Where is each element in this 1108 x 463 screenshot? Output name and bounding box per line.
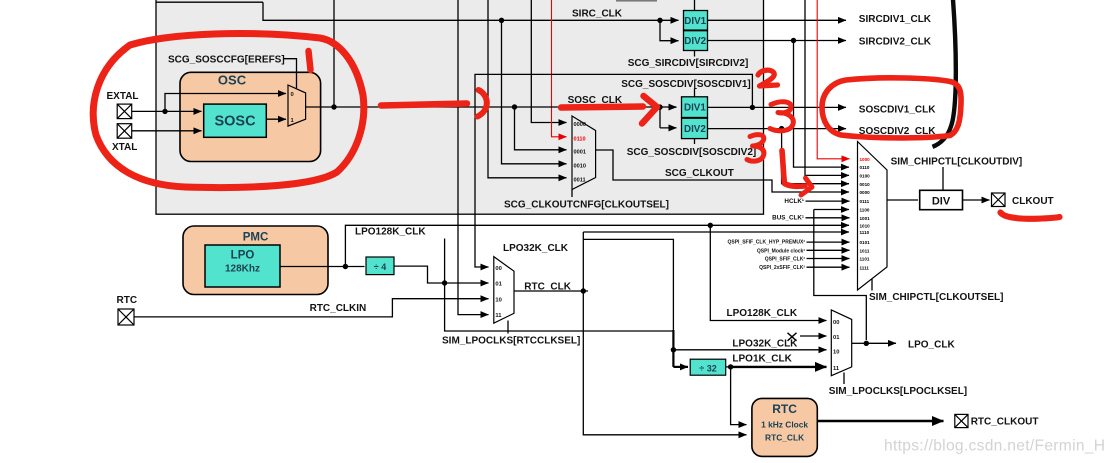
- svg-text:10: 10: [495, 297, 501, 303]
- svg-text:1011: 1011: [860, 248, 870, 253]
- svg-text:1101: 1101: [860, 257, 870, 262]
- svg-text:SCG_CLKOUTCNFG[CLKOUTSEL]: SCG_CLKOUTCNFG[CLKOUTSEL]: [504, 200, 669, 211]
- svg-text:1110: 1110: [860, 230, 870, 235]
- svg-text:SCG_CLKOUT: SCG_CLKOUT: [665, 168, 734, 179]
- svg-text:1111: 1111: [860, 265, 870, 270]
- svg-text:1 kHz Clock: 1 kHz Clock: [761, 420, 808, 430]
- svg-text:SOSCDIV1_CLK: SOSCDIV1_CLK: [859, 105, 936, 116]
- svg-text:1001: 1001: [860, 216, 871, 221]
- svg-text:SIM_CHIPCTL[CLKOUTSEL]: SIM_CHIPCTL[CLKOUTSEL]: [869, 292, 1003, 303]
- svg-text:DIV2: DIV2: [684, 124, 706, 135]
- svg-text:1000: 1000: [860, 157, 871, 162]
- svg-text:11: 11: [833, 366, 840, 372]
- svg-text:0010: 0010: [860, 182, 871, 187]
- svg-text:RTC_CLK: RTC_CLK: [524, 281, 571, 292]
- svg-text:01: 01: [833, 335, 840, 341]
- svg-text:RTC_CLKOUT: RTC_CLKOUT: [971, 417, 1039, 428]
- svg-text:128Khz: 128Khz: [225, 264, 260, 275]
- svg-text:QSPI_SFIF_CLK²: QSPI_SFIF_CLK²: [765, 257, 806, 263]
- svg-text:LPO: LPO: [231, 250, 255, 262]
- svg-text:0010: 0010: [574, 163, 586, 169]
- svg-text:10: 10: [833, 349, 839, 355]
- svg-text:RTC_CLKIN: RTC_CLKIN: [310, 303, 367, 314]
- svg-text:0011: 0011: [574, 177, 586, 183]
- svg-text:LPO1K_CLK: LPO1K_CLK: [732, 354, 792, 365]
- svg-text:00: 00: [495, 266, 501, 272]
- svg-text:LPO_CLK: LPO_CLK: [908, 340, 955, 351]
- svg-text:RTC: RTC: [117, 295, 138, 306]
- svg-text:HCLK¹: HCLK¹: [784, 198, 804, 205]
- svg-text:DIV1: DIV1: [684, 16, 706, 27]
- svg-text:1010: 1010: [860, 223, 871, 228]
- svg-text:00: 00: [833, 320, 839, 326]
- svg-text:SCG_SOSCDIV[SOSCDIV2]: SCG_SOSCDIV[SOSCDIV2]: [627, 147, 756, 158]
- svg-text:QSPI_2xSFIF_CLK²: QSPI_2xSFIF_CLK²: [759, 265, 805, 271]
- svg-text:OSC: OSC: [218, 73, 247, 88]
- svg-text:SIRC_CLK: SIRC_CLK: [572, 8, 623, 19]
- svg-text:SCG_SOSCCFG[EREFS]: SCG_SOSCCFG[EREFS]: [168, 55, 285, 66]
- svg-text:QSPI_Module clock²: QSPI_Module clock²: [757, 248, 805, 254]
- svg-text:11: 11: [495, 313, 502, 319]
- svg-text:PMC: PMC: [243, 232, 269, 244]
- svg-text:QSPI_SFIF_CLK_HYP_PREMUX²: QSPI_SFIF_CLK_HYP_PREMUX²: [727, 240, 805, 246]
- svg-text:0110: 0110: [574, 136, 586, 142]
- svg-text:0110: 0110: [860, 165, 870, 170]
- svg-text:LPO128K_CLK: LPO128K_CLK: [355, 227, 426, 238]
- svg-text:LPO32K_CLK: LPO32K_CLK: [503, 243, 569, 254]
- svg-text:SIRCDIV2_CLK: SIRCDIV2_CLK: [859, 36, 932, 47]
- svg-text:0000: 0000: [860, 190, 871, 195]
- svg-text:0100: 0100: [860, 174, 871, 179]
- svg-text:1100: 1100: [860, 208, 870, 213]
- svg-text:DIV2: DIV2: [684, 36, 706, 47]
- svg-text:LPO32K_CLK: LPO32K_CLK: [732, 339, 798, 350]
- svg-text:SIM_LPOCLKS[RTCCLKSEL]: SIM_LPOCLKS[RTCCLKSEL]: [442, 335, 580, 346]
- svg-text:SCG_SOSCDIV[SOSCDIV1]: SCG_SOSCDIV[SOSCDIV1]: [621, 79, 750, 90]
- svg-text:SIM_CHIPCTL[CLKOUTDIV]: SIM_CHIPCTL[CLKOUTDIV]: [891, 157, 1023, 168]
- svg-text:01: 01: [495, 282, 502, 288]
- svg-text:XTAL: XTAL: [112, 142, 137, 153]
- svg-text:DIV1: DIV1: [684, 103, 706, 114]
- svg-text:0: 0: [291, 92, 294, 98]
- svg-text:https://blog.csdn.net/Fermin_H: https://blog.csdn.net/Fermin_H: [884, 438, 1105, 455]
- svg-text:LPO128K_CLK: LPO128K_CLK: [727, 308, 798, 319]
- svg-text:0111: 0111: [860, 199, 870, 204]
- svg-text:CLKOUT: CLKOUT: [1012, 196, 1054, 207]
- svg-text:DIV: DIV: [932, 196, 951, 208]
- svg-text:÷ 4: ÷ 4: [374, 262, 386, 272]
- svg-text:÷ 32: ÷ 32: [699, 364, 716, 374]
- svg-text:RTC_CLK: RTC_CLK: [765, 433, 804, 443]
- svg-text:0001: 0001: [574, 149, 586, 155]
- svg-text:BUS_CLK¹: BUS_CLK¹: [772, 215, 804, 222]
- svg-text:0000: 0000: [574, 122, 586, 128]
- svg-text:RTC: RTC: [772, 402, 797, 416]
- svg-text:SCG_SIRCDIV[SIRCDIV2]: SCG_SIRCDIV[SIRCDIV2]: [628, 58, 749, 69]
- svg-text:EXTAL: EXTAL: [107, 91, 139, 102]
- svg-text:SIM_LPOCLKS[LPOCLKSEL]: SIM_LPOCLKS[LPOCLKSEL]: [829, 386, 967, 397]
- svg-text:SIRCDIV1_CLK: SIRCDIV1_CLK: [859, 14, 932, 25]
- svg-text:SOSC: SOSC: [214, 114, 256, 130]
- svg-text:0101: 0101: [860, 240, 871, 245]
